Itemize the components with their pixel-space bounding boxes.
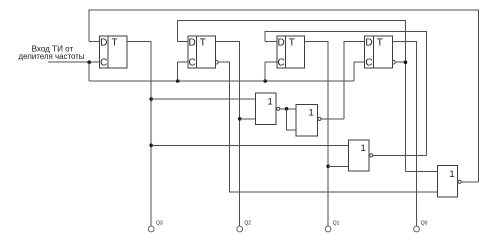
wire: clock riser to FF4 C	[353, 62, 355, 81]
flip-flop U2 (Q2 stage)	[188, 36, 216, 69]
wire: FF1 Q output to Q3 column	[127, 42, 151, 226]
svg-text:C: C	[100, 58, 107, 69]
flip-flop U1 (Q3 stage)	[100, 36, 128, 69]
svg-text:C: C	[365, 58, 372, 69]
wire: Q3 tap to gate A input 1	[151, 98, 255, 100]
junction dot on clock input at FF1	[87, 60, 91, 64]
svg-text:Q1: Q1	[333, 220, 340, 226]
svg-text:1: 1	[449, 169, 454, 180]
svg-text:D: D	[365, 38, 372, 49]
junction dot Q3 column to gate A input	[149, 97, 153, 101]
wire: gate B out riser to FF4 D	[344, 42, 365, 119]
wire: FF4 /Q to L2 net	[395, 61, 405, 63]
svg-text:C: C	[188, 58, 195, 69]
flip-flop U3 (Q1 stage)	[277, 36, 305, 69]
inversion bubble FF4 /Q	[392, 60, 396, 64]
svg-text:Q2: Q2	[244, 220, 251, 226]
wire: gate D output to L1 riser	[461, 181, 479, 183]
NOR gate U8 (gate D)	[437, 166, 461, 198]
wire: FF3 Q output to Q1 column	[304, 42, 328, 226]
NOR gate U6 (gate B)	[296, 104, 321, 135]
junction dot gate A output	[285, 107, 289, 111]
wire: Q3 tap to gate C input 1	[151, 144, 348, 146]
wire: feedback line L3 (gate C out to FF3 D)	[265, 32, 426, 156]
terminal Q2	[237, 220, 251, 232]
svg-text:T: T	[112, 38, 118, 49]
junction dot Q2 column to gate A input	[238, 117, 242, 121]
NOR gate U7 (gate C)	[348, 140, 372, 171]
wire: clock rail	[89, 80, 354, 82]
inversion bubble FF2 /Q	[215, 60, 219, 64]
svg-text:Q3: Q3	[156, 220, 163, 226]
wire: FF2 Q output to Q2 column	[215, 42, 239, 226]
terminal Q1	[325, 220, 339, 232]
wire: FF1 D stub	[89, 41, 100, 43]
terminal Q0	[414, 220, 428, 232]
wire: clock riser to FF2 C	[177, 62, 179, 81]
svg-text:1: 1	[361, 143, 366, 154]
wire: FF2 D stub	[178, 41, 188, 43]
svg-text:T: T	[289, 38, 295, 49]
terminal Q3	[148, 220, 163, 232]
svg-text:1: 1	[309, 107, 314, 118]
wire: FF3 C stub	[265, 61, 277, 63]
svg-text:T: T	[377, 38, 383, 49]
flip-flop U4 (Q0 stage)	[365, 36, 393, 69]
wire: clock input from text to FF1 C pin	[48, 61, 100, 63]
wire: clock drop from junction to clock rail	[88, 62, 90, 81]
wire: FF3 D stub	[265, 41, 277, 43]
wire: FF4 C stub	[354, 61, 365, 63]
junction dot Q3 column to gate C input	[149, 144, 153, 148]
svg-text:Q0: Q0	[421, 220, 428, 226]
wire: feedback line L2 (FF4 /Q net to FF2 D and gate D input)	[178, 21, 406, 172]
svg-text:делителя частоты: делителя частоты	[19, 52, 85, 61]
wire: FF4 Q output to Q0 column	[392, 42, 416, 226]
wire: clock riser to FF3 C	[264, 62, 266, 81]
wire: gate B output to FF4 D riser	[321, 118, 344, 120]
wire: gate A output jog to gate B input 2	[287, 109, 297, 130]
svg-text:T: T	[200, 38, 206, 49]
svg-text:D: D	[277, 38, 284, 49]
wire: FF2 /Q to gate D input 2	[218, 62, 437, 192]
svg-text:1: 1	[267, 96, 272, 107]
NOR gate U5 (gate A)	[255, 93, 279, 125]
wire: Q1 tap to gate C input 2	[328, 165, 348, 167]
junction dot FF4 /Q on L2 riser	[404, 60, 408, 64]
wire: feedback line L1 (gate D out to FF1 D)	[89, 10, 479, 182]
wire: gate C output to L3 riser	[372, 154, 426, 156]
svg-text:D: D	[100, 38, 107, 49]
wire: L2 net to gate D input 1	[406, 170, 438, 172]
wire: gate A output to gate B input 1	[279, 108, 296, 110]
svg-text:D: D	[188, 38, 195, 49]
junction dot clock rail to FF3 C riser	[263, 79, 267, 83]
wire: Q2 tap to gate A input 2	[240, 118, 256, 120]
junction dot clock rail to FF2 C riser	[176, 79, 180, 83]
input label "Вход ТИ от делителя частоты"	[19, 44, 85, 61]
junction dot Q1 column to gate C input	[326, 165, 330, 169]
svg-text:C: C	[277, 58, 284, 69]
wire: FF2 C stub	[178, 61, 188, 63]
